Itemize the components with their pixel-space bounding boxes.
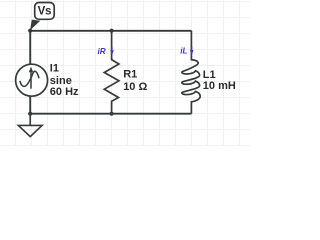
flag bubble (35, 3, 55, 20)
wire left branch upper (29, 31, 31, 65)
svg-text:R1: R1 (123, 68, 137, 80)
label R1 10 ohm (123, 68, 147, 93)
node C bottom-left junction (28, 112, 32, 116)
node D resistor bottom junction (110, 112, 114, 116)
ground triangle (18, 125, 42, 136)
wire left branch lower (29, 96, 31, 114)
inductor L1 (182, 31, 200, 114)
ground stub wire (29, 114, 31, 126)
svg-text:L1: L1 (203, 69, 216, 81)
sine wave glyph (20, 71, 39, 86)
current direction arrow head (29, 67, 33, 73)
label L1 10 mH (203, 69, 236, 92)
svg-text:Vs: Vs (38, 5, 51, 17)
svg-text:10 mH: 10 mH (203, 80, 236, 92)
flag pointer tail (30, 20, 40, 31)
svg-text:60 Hz: 60 Hz (50, 86, 79, 98)
wire bottom net (30, 113, 191, 115)
net label Vs flag (30, 3, 54, 31)
current arrow iR (98, 47, 114, 56)
source body circle (16, 64, 48, 96)
svg-text:sine: sine (50, 75, 72, 87)
current source I1 (16, 64, 48, 96)
node B resistor top junction (110, 29, 114, 33)
svg-text:iR: iR (98, 47, 106, 56)
svg-text:iL: iL (180, 46, 187, 55)
label I1 value sine 60 Hz (50, 63, 79, 99)
wire top net (30, 30, 191, 32)
iL arrow shaft (191, 47, 193, 51)
current arrow iL (180, 46, 193, 55)
current direction arrow shaft (30, 71, 32, 89)
resistor R1 (104, 31, 119, 114)
iL arrow head (190, 50, 194, 55)
svg-text:10 Ω: 10 Ω (123, 81, 147, 93)
svg-text:I1: I1 (50, 63, 59, 75)
ground (18, 114, 42, 137)
iR arrow shaft (111, 47, 113, 51)
node A top-left junction (28, 29, 32, 33)
iR arrow head (110, 50, 114, 55)
